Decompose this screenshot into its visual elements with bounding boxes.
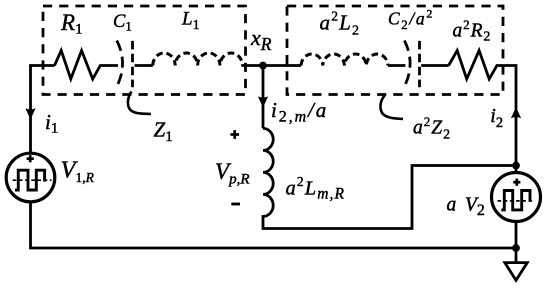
- svg-text:a2L2: a2L2: [320, 9, 361, 39]
- svg-text:i2: i2: [490, 105, 503, 131]
- svg-text:C1: C1: [113, 12, 132, 34]
- svg-text:a: a: [447, 195, 457, 216]
- svg-text:xR: xR: [250, 25, 272, 54]
- svg-text:V1,R: V1,R: [61, 157, 95, 186]
- svg-text:a2Lm,R: a2Lm,R: [286, 174, 346, 202]
- svg-text:i1: i1: [45, 110, 58, 137]
- svg-text:C2/a2: C2/a2: [388, 6, 434, 32]
- svg-text:i2,m/a: i2,m/a: [271, 98, 328, 126]
- svg-text:L1: L1: [181, 8, 200, 33]
- svg-text:V2: V2: [465, 195, 485, 219]
- svg-text:Vp,R: Vp,R: [215, 159, 249, 188]
- svg-text:R1: R1: [60, 10, 83, 38]
- svg-text:Z1: Z1: [154, 118, 173, 146]
- svg-text:a2R2: a2R2: [453, 17, 492, 45]
- svg-text:a2Z2: a2Z2: [413, 114, 451, 142]
